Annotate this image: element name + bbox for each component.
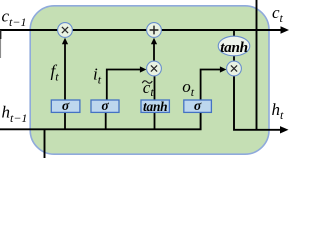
- op: add +: [147, 23, 162, 38]
- LSTM cell body: [30, 6, 269, 154]
- gate: sigma2 box (input gate): [91, 100, 119, 112]
- wire: tanh ellipse to x3: [233, 56, 235, 62]
- gate: sigma1 box (forget gate): [51, 100, 80, 112]
- svg-text:tanh: tanh: [143, 99, 167, 114]
- wire: c-line branch down to tanh ellipse: [233, 30, 235, 37]
- svg-text:σ: σ: [194, 98, 202, 113]
- wire: f_t up into x1: [64, 43, 66, 101]
- arrowhead c_t output: [281, 26, 290, 33]
- wire: o_t up and right into x3: [201, 70, 221, 101]
- gate: sigma4 box (output gate): [184, 100, 212, 112]
- op: tanh ellipse: [218, 36, 250, 56]
- wire: x2 output up into +: [153, 44, 155, 61]
- op: multiply x1 (forget): [58, 23, 73, 38]
- wire: h_t branch up through cell top: [256, 0, 258, 130]
- arrowhead h_t output: [280, 126, 289, 133]
- wire: h-line left (h_t-1 into gates): [0, 112, 201, 129]
- wire: x3 down to h-line right: [234, 76, 280, 130]
- wire: sigma1 tap to h-line: [64, 112, 66, 129]
- svg-text:tanh: tanh: [220, 39, 248, 56]
- wire: c-line (cell state, top): [0, 29, 281, 31]
- svg-text:σ: σ: [62, 98, 70, 113]
- op: multiply x3 (output): [227, 61, 242, 76]
- wire: sigma2 tap to h-line: [105, 112, 107, 129]
- wire: i_t up and right into x2: [107, 70, 141, 101]
- wire: c~ from tanh box up into x2: [154, 76, 156, 101]
- wire: left edge artifact: [0, 30, 2, 39]
- svg-text:σ: σ: [101, 98, 109, 113]
- op: multiply x2 (input): [147, 61, 162, 76]
- wire: x_t drop at bottom left: [44, 129, 46, 158]
- gate: tanh box (candidate): [141, 100, 169, 112]
- wire: tanh-box tap to h-line: [154, 112, 156, 129]
